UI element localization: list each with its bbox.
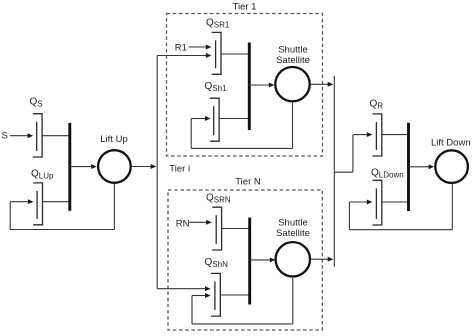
- label R1: [175, 42, 187, 53]
- wire tier1 shuttle feedback riser: [190, 119, 192, 149]
- tier1 drain bus: [248, 43, 251, 131]
- wire arrow into QR gate: [353, 132, 373, 137]
- wire tierN shuttle feedback drop: [292, 277, 294, 324]
- svg-text:Satellite: Satellite: [276, 228, 310, 239]
- wire tierN shuttle feedback bottom run: [192, 323, 293, 325]
- right collector bus (shuttle outputs): [333, 76, 335, 267]
- wire Lift Up feedback: circle bottom drop: [113, 184, 115, 230]
- svg-text:S: S: [2, 130, 8, 141]
- label Tier 1: [233, 2, 257, 13]
- wire QS drain to left bus: [42, 135, 70, 137]
- transistor QShN: [211, 273, 220, 316]
- wire tier1 shuttle feedback bottom run: [191, 147, 292, 149]
- transistor QSRN: [212, 207, 221, 250]
- svg-text:Shuttle: Shuttle: [278, 218, 308, 229]
- label QSR1: [206, 18, 230, 30]
- transistor QSh1: [210, 98, 219, 141]
- tierN shuttle satellite circle: [276, 242, 310, 276]
- wire right drain bus arrow into Lift Down: [409, 164, 435, 169]
- wire T-branch riser to QR gate: [352, 135, 354, 173]
- label Lift Down: [431, 137, 471, 148]
- lift-up module circle: [98, 150, 131, 183]
- wire R1 arrow into QSR1 gate: [188, 45, 211, 50]
- wire QLUp drain to left bus: [43, 201, 70, 203]
- label QLUp: [31, 169, 54, 181]
- wire tierN bus arrow into shuttle: [250, 257, 276, 262]
- wire QLDown drain to right drain bus: [382, 201, 409, 203]
- Tier N dashed boundary box: [168, 190, 322, 330]
- wire Lift Down feedback bottom run: [349, 229, 452, 231]
- tierN drain bus: [248, 218, 251, 305]
- label QSRN: [206, 193, 231, 205]
- wire QSRN drain to tierN bus: [222, 228, 250, 230]
- label QR: [370, 99, 384, 111]
- wire Lift Up output arrow to center bus: [132, 164, 156, 169]
- svg-text:Lift Up: Lift Up: [100, 134, 127, 145]
- wire QR drain to right drain bus: [382, 134, 409, 136]
- svg-text:R1: R1: [175, 42, 187, 53]
- wire Lift Down feedback arrow into QLDown gate: [349, 200, 372, 205]
- Tier 1 dashed boundary box: [167, 14, 323, 157]
- tier1 shuttle satellite circle: [275, 67, 309, 101]
- center select bus (Lift Up output): [156, 56, 158, 289]
- transistor QSR1: [212, 32, 221, 74]
- label QShN: [205, 257, 229, 269]
- wire QShN drain to tierN bus: [220, 294, 249, 296]
- svg-text:Tier N: Tier N: [235, 176, 261, 187]
- svg-text:Tier i: Tier i: [169, 164, 190, 175]
- transistor QS: [33, 114, 42, 157]
- wire Lift Up feedback arrow into QLUp gate: [10, 199, 33, 204]
- wire tierN shuttle feedback riser: [191, 296, 193, 324]
- wire tierN shuttle feedback arrow into QShN gate: [192, 293, 211, 298]
- wire QSR1 drain to tier1 bus: [221, 53, 249, 55]
- wire tier1 bus arrow into shuttle: [249, 83, 274, 88]
- transistor QLUp: [33, 183, 42, 225]
- svg-text:Satellite: Satellite: [276, 55, 310, 66]
- label QSh1: [205, 81, 228, 93]
- transistor QR: [373, 114, 382, 156]
- svg-text:RN: RN: [176, 218, 190, 229]
- wire center bus top run into QSR1 gate: [157, 53, 211, 58]
- wire tier1 shuttle feedback drop: [292, 102, 294, 149]
- wire center bus bottom run into QShN gate: [157, 286, 210, 291]
- label Shuttle Satellite tier1: [276, 44, 310, 66]
- wire tier1 shuttle output arrow to right bus: [310, 82, 333, 87]
- wire Lift Down feedback drop: [451, 184, 453, 230]
- label RN: [176, 218, 190, 229]
- wire Lift Up feedback left riser: [9, 202, 11, 230]
- wire tierN shuttle output arrow to right bus: [310, 257, 333, 262]
- wire QSh1 drain to tier1 bus: [219, 118, 249, 120]
- label Tier i: [169, 164, 190, 175]
- wire right bus T-branch run: [334, 171, 353, 173]
- wire RN arrow into QSRN gate: [189, 220, 212, 225]
- left drain bus: [68, 123, 71, 211]
- wire left bus arrow into Lift Up: [70, 164, 97, 169]
- transistor QLDown: [373, 180, 382, 225]
- label Tier N: [235, 176, 261, 187]
- right drain bus: [407, 123, 410, 211]
- wire Lift Down feedback riser: [348, 202, 350, 230]
- node S input label: [2, 130, 8, 141]
- lift-down module circle: [435, 150, 468, 183]
- wire Lift Up feedback bottom run: [10, 229, 114, 231]
- svg-text:Tier 1: Tier 1: [233, 2, 257, 13]
- label Shuttle Satellite tierN: [276, 218, 310, 240]
- label QS: [30, 97, 43, 109]
- svg-text:Lift Down: Lift Down: [431, 137, 471, 148]
- wire S input arrow into QS gate: [10, 133, 33, 138]
- svg-text:Shuttle: Shuttle: [278, 44, 308, 55]
- label QLDown: [371, 168, 404, 180]
- wire tier1 shuttle feedback arrow into QSh1 gate: [191, 116, 210, 121]
- label Lift Up: [100, 134, 127, 145]
